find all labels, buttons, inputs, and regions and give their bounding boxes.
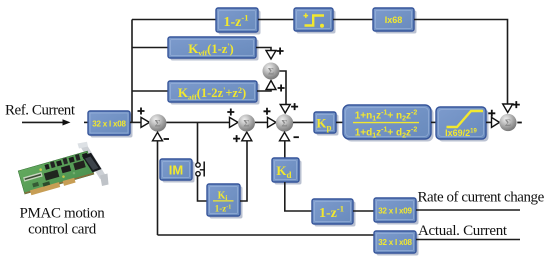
label PMAC motion control card	[20, 206, 106, 238]
wire to top 1-z-1 block	[132, 19, 216, 21]
plus ff-sum bottom	[278, 85, 285, 92]
arrow into ff-sum bottom (+)	[266, 81, 276, 90]
minus sum3 bottom	[294, 136, 299, 138]
svg-text:Σ: Σ	[155, 120, 161, 130]
summing junction 3	[276, 114, 293, 131]
wire 1-z-1 to deadband	[258, 19, 294, 21]
switch contact bottom	[196, 172, 200, 176]
svg-text:Ref. Current: Ref. Current	[5, 103, 76, 119]
wire switch to Ki block	[198, 176, 208, 201]
arrow into sum1 (+)	[141, 117, 150, 127]
block Kp	[314, 112, 339, 136]
wire Ki to sum2 bottom	[240, 141, 247, 201]
summing junction 1	[149, 114, 166, 131]
summing junction ff (feedforward)	[263, 63, 280, 80]
block Kvff	[168, 37, 259, 61]
arrow into ff-sum top (+)	[266, 51, 276, 60]
plus sum3 top	[291, 103, 298, 110]
arrow into sum3 (+)	[268, 117, 277, 127]
switch contact top	[196, 163, 200, 167]
wire to Kvff block	[132, 47, 168, 49]
arrow into sum2 (+)	[230, 117, 239, 127]
block 32xIx09	[374, 198, 419, 225]
wire saturation to final sum	[486, 121, 492, 123]
PMAC card photo	[18, 142, 108, 197]
wire sum2 to sum3	[255, 121, 268, 123]
svg-text:32 x I x08: 32 x I x08	[378, 238, 412, 247]
block 32xIx08 feedback	[374, 231, 419, 256]
arrow into final sum top (+)	[503, 104, 513, 113]
svg-text:control card: control card	[28, 222, 97, 238]
plus sum3 left	[264, 108, 271, 115]
wire 1-z-1 to 32xIx09	[353, 210, 374, 212]
svg-text:Ix68: Ix68	[385, 15, 403, 25]
wire Kd down to 1-z-1 bottom	[285, 182, 312, 211]
plus final sum left	[488, 110, 495, 117]
plus final sum top	[513, 101, 520, 108]
wire actual-current line	[416, 239, 520, 241]
block Ix68	[373, 8, 417, 34]
svg-text:Σ: Σ	[268, 68, 274, 78]
plus sum1 left	[138, 108, 145, 115]
summing junction 2	[238, 115, 255, 132]
wire sum3 down to Kd	[284, 141, 286, 158]
svg-text:32 x I x09: 32 x I x09	[378, 207, 412, 216]
wire filter to saturation	[431, 121, 436, 123]
arrow into sum3 bottom (-)	[280, 132, 290, 141]
wire rate-of-current-change line	[416, 209, 520, 211]
minus sum1 bottom	[164, 138, 169, 140]
plus sum2 left	[227, 109, 234, 116]
wire main from 32xIx08 to sum1	[130, 121, 142, 123]
wire integrator tap down to switch	[197, 122, 199, 162]
minus final sum right	[517, 122, 522, 124]
block deadband (step icon)	[294, 8, 336, 34]
wire feedforward vertical tap	[131, 20, 133, 123]
plus sum2 bottom	[233, 135, 240, 142]
summing junction final	[499, 114, 516, 131]
wire to Kaff block	[132, 90, 168, 92]
block Kaff	[168, 81, 260, 105]
block 1-z^-1 bottom	[312, 199, 356, 227]
wire ff-sum to sum3 top	[280, 71, 287, 105]
wire ref-current arrow	[22, 119, 71, 125]
arrow into sum3 top (+)	[280, 105, 290, 114]
wire Kaff to ff-sum bottom	[257, 90, 271, 92]
svg-text:Rate of current change: Rate of current change	[418, 190, 545, 206]
arrow into sum2 bottom (+)	[242, 132, 252, 141]
wire feedback bottom run	[158, 234, 375, 236]
svg-text:Σ: Σ	[505, 119, 511, 129]
wire stub into 32xIx08	[84, 121, 88, 123]
arrow into sum1 bottom (-)	[153, 132, 163, 141]
svg-text:IM: IM	[169, 163, 183, 178]
svg-text:PMAC motion: PMAC motion	[20, 206, 106, 222]
block 32xIx08 (command register)	[88, 111, 133, 138]
block Ki/(1-z^-1)	[207, 184, 243, 219]
block Kd	[272, 158, 302, 185]
wire sum1 to sum2	[166, 121, 230, 123]
wire Kp to filter	[336, 121, 343, 123]
svg-text:Σ: Σ	[281, 120, 287, 130]
svg-text:Kvff(1-z'): Kvff(1-z')	[188, 41, 233, 58]
svg-text:Actual. Current: Actual. Current	[418, 223, 508, 239]
svg-text:Σ: Σ	[243, 120, 249, 130]
bracket	[80, 144, 106, 180]
block 1-z^-1 top	[216, 8, 261, 35]
switch actuator bar	[200, 162, 204, 177]
wire Kvff to ff-sum top	[256, 48, 271, 51]
board and components	[18, 151, 95, 197]
wire Ix68 to final sum (right + down)	[414, 20, 508, 104]
block IM	[160, 159, 195, 183]
plus ff-sum top	[277, 48, 284, 55]
block saturation Ix69	[436, 107, 489, 142]
wire deadband to Ix68	[333, 19, 373, 21]
svg-text:32 x I x08: 32 x I x08	[92, 120, 126, 129]
wire feedback up into sum1	[157, 141, 159, 235]
wire sum3 to Kp	[293, 121, 314, 123]
D connector on bracket	[82, 153, 102, 173]
arrow into final sum (+)	[492, 117, 500, 127]
block notch filter (transfer function)	[343, 105, 434, 142]
